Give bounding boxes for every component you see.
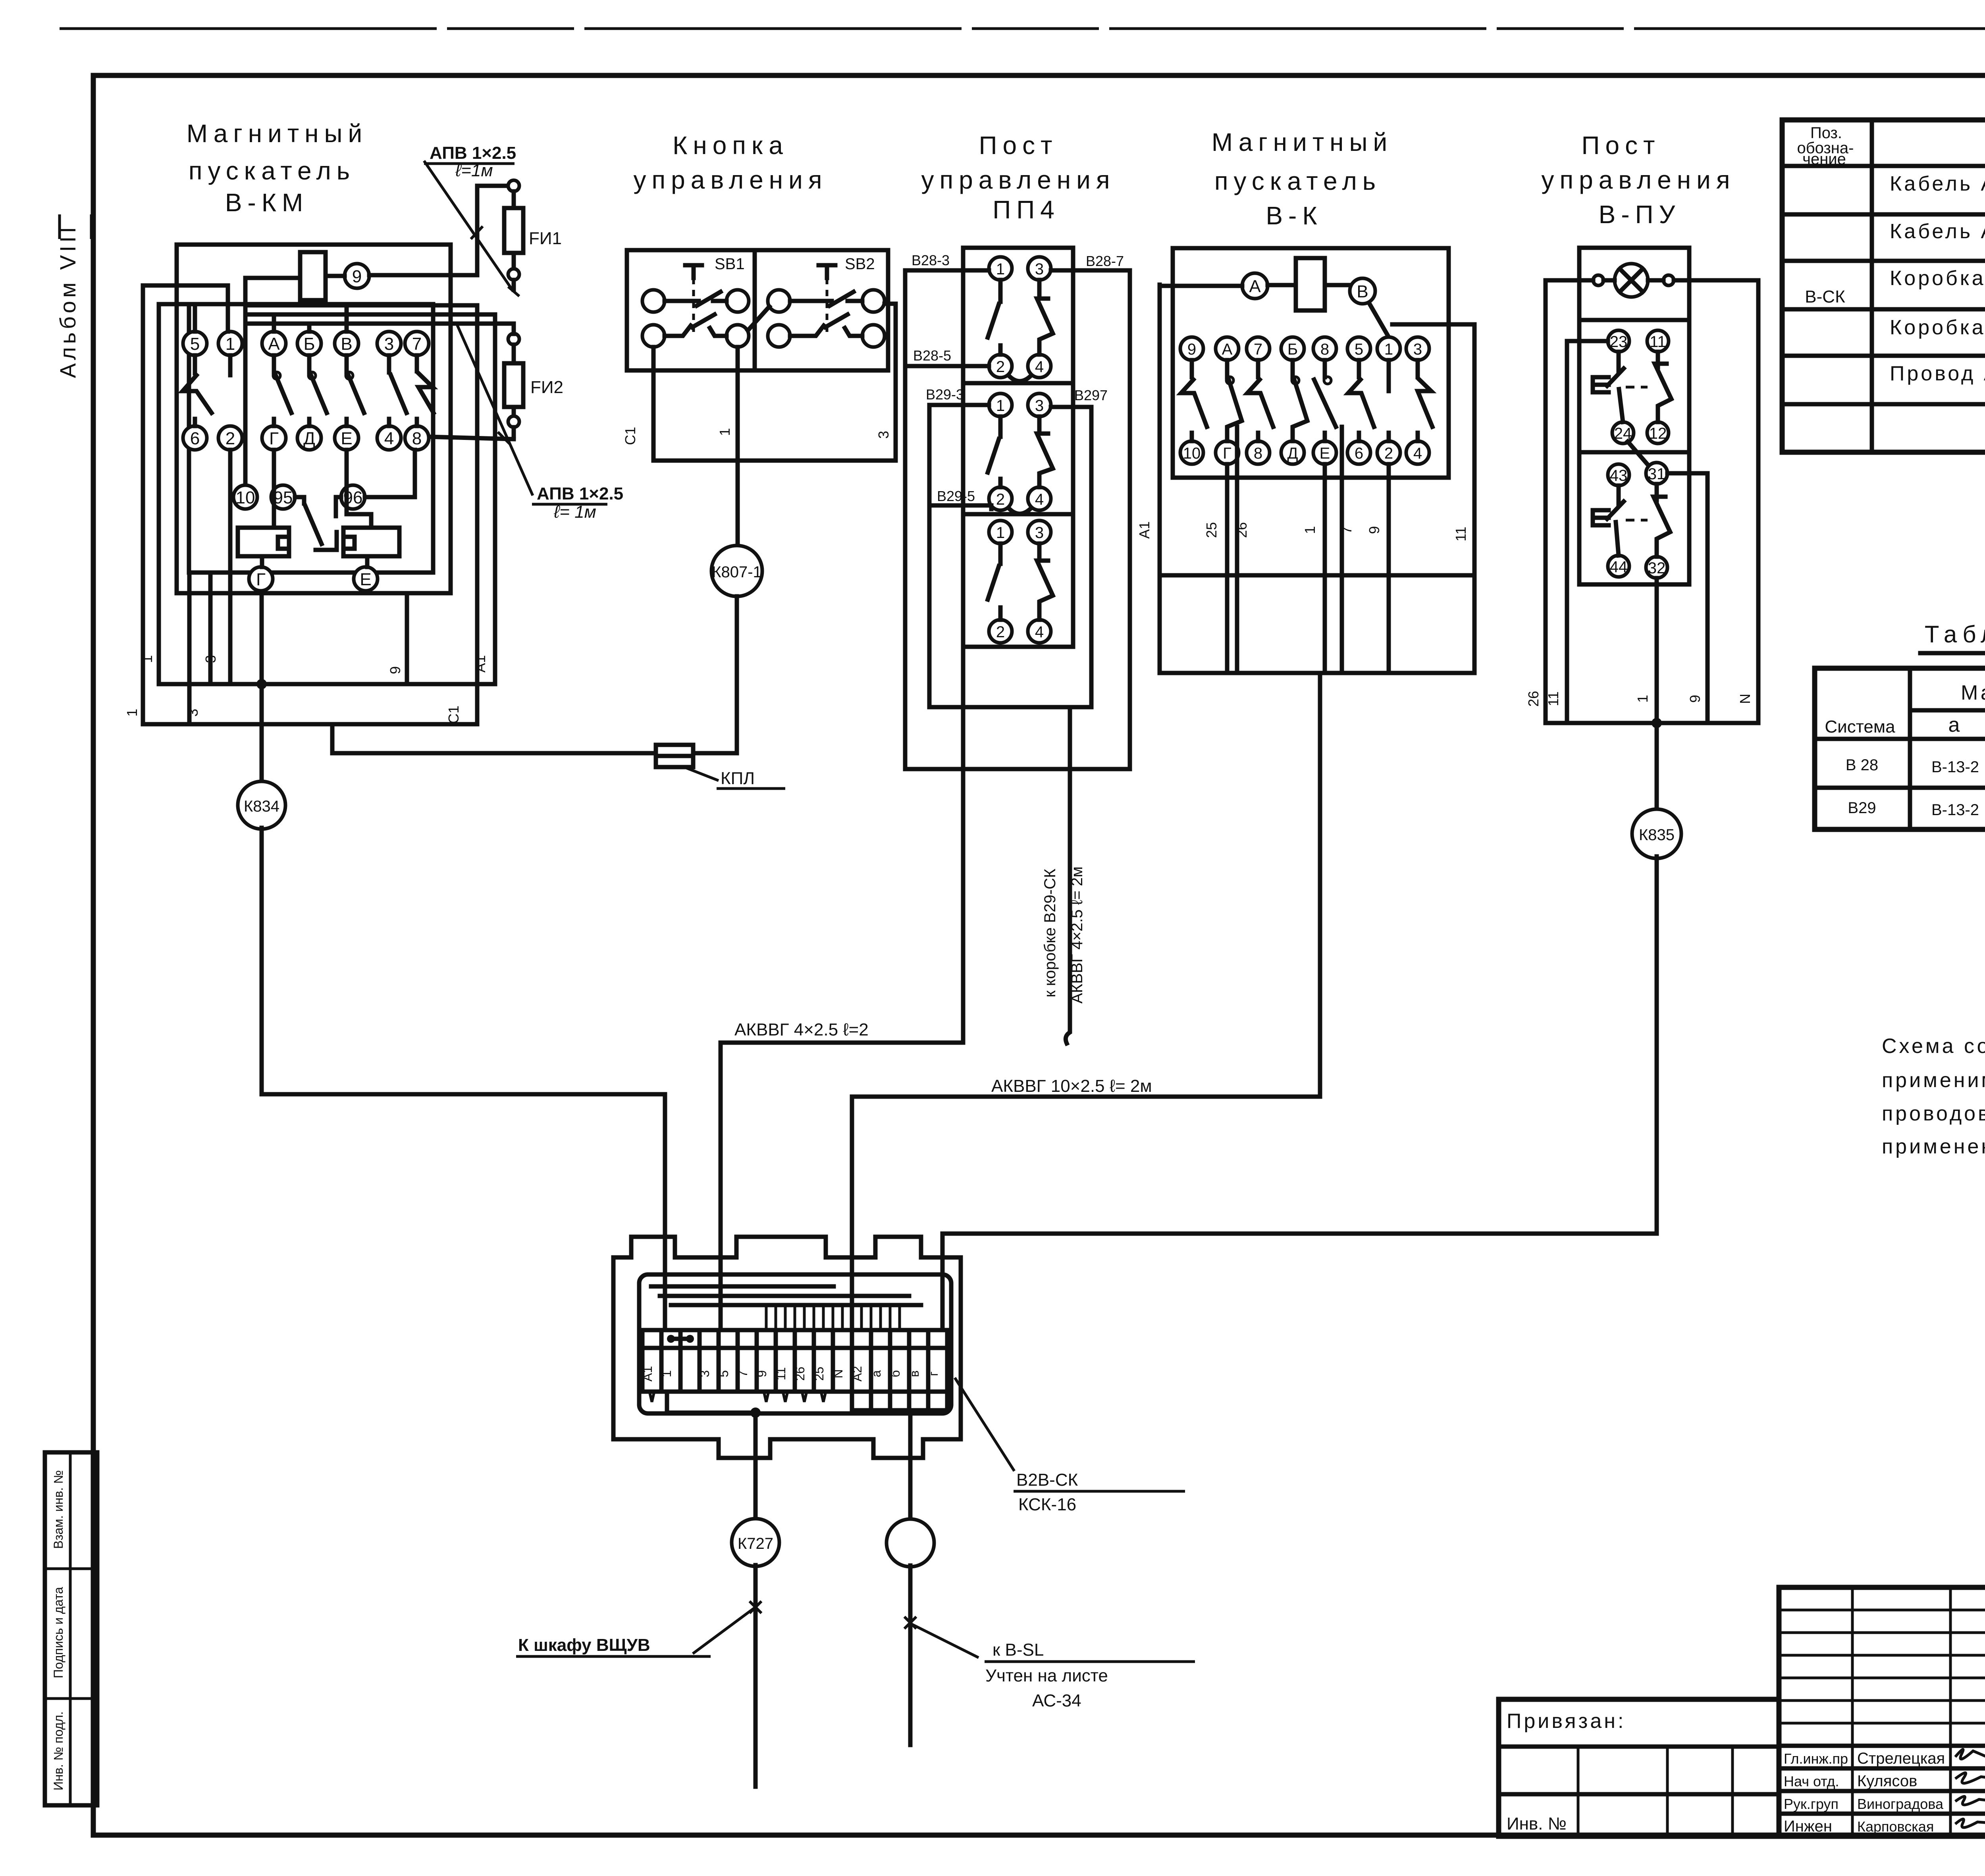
V-PU contact unit 1 symbol <box>1593 352 1671 422</box>
svg-text:АКВВГ 4×2.5 ℓ= 2м: АКВВГ 4×2.5 ℓ= 2м <box>1068 866 1086 1004</box>
svg-text:1: 1 <box>659 1370 674 1377</box>
V-PU contact unit 2 symbol <box>1593 484 1670 557</box>
svg-text:3: 3 <box>384 334 394 354</box>
svg-text:2: 2 <box>996 491 1005 508</box>
svg-text:6: 6 <box>190 429 200 448</box>
svg-text:26: 26 <box>793 1367 807 1381</box>
svg-text:5: 5 <box>1355 341 1363 358</box>
svg-text:к коробке В29-СК: к коробке В29-СК <box>1041 868 1059 997</box>
svg-text:А: А <box>1249 277 1261 296</box>
svg-text:А1: А1 <box>472 655 488 673</box>
title: Магнитный пускатель В-КМ <box>187 119 368 217</box>
connector inner body <box>639 1274 951 1413</box>
wire К834 down to connector <box>262 828 665 1330</box>
svg-text:3: 3 <box>1035 260 1044 278</box>
svg-text:ℓ=1м: ℓ=1м <box>455 161 493 180</box>
connector terminal strip <box>640 1330 947 1392</box>
svg-text:Магнитный: Магнитный <box>1212 128 1393 156</box>
svg-text:В: В <box>1357 282 1368 301</box>
svg-text:Г: Г <box>1223 445 1231 462</box>
PP4 contact unit 3 <box>988 521 1053 643</box>
svg-text:1: 1 <box>1634 695 1651 703</box>
wire C1 to KPL junction box <box>332 724 734 753</box>
V-K bottom exit wires with labels <box>1136 427 1474 673</box>
svg-text:9: 9 <box>1366 526 1382 534</box>
cable marker К727 <box>732 1413 779 1566</box>
svg-text:Е: Е <box>341 429 352 448</box>
svg-text:К834: К834 <box>244 798 279 815</box>
svg-text:Карповская: Карповская <box>1857 1818 1934 1835</box>
PP4 bottom bus B29 loop <box>929 705 1091 710</box>
wire B29-7 right drop <box>1051 407 1091 707</box>
fuse FU1 lower terminals <box>246 269 519 345</box>
svg-text:1: 1 <box>124 709 140 717</box>
cross wire SB1 to SB2 <box>748 307 769 330</box>
cable label APV 1x2.5 l=1m (top) <box>424 143 516 289</box>
thermal relay heater boxes <box>238 528 399 556</box>
svg-text:пускатель: пускатель <box>1214 167 1381 195</box>
svg-text:Г: Г <box>269 429 279 448</box>
cable marker К807-1 <box>711 546 762 596</box>
svg-text:Инв. №: Инв. № <box>1507 1814 1567 1834</box>
svg-text:9: 9 <box>1687 695 1703 703</box>
svg-text:пускатель: пускатель <box>189 156 355 185</box>
svg-text:Д: Д <box>303 429 315 448</box>
svg-text:С1: С1 <box>622 427 638 445</box>
svg-text:А: А <box>268 334 280 354</box>
svg-text:Виноградова: Виноградова <box>1857 1796 1944 1812</box>
svg-text:в: в <box>907 1371 921 1377</box>
svg-text:Пост: Пост <box>1582 131 1661 160</box>
V-K contact terminals top row <box>1180 337 1429 360</box>
connector collection wire to lower exits <box>667 1392 761 1418</box>
V-PU contact unit 1 terminals <box>1608 330 1669 443</box>
title block signature grid <box>1779 1587 1985 1836</box>
svg-text:Гл.инж.пр: Гл.инж.пр <box>1784 1751 1848 1767</box>
svg-text:10: 10 <box>1183 445 1201 462</box>
svg-text:В-КМ: В-КМ <box>225 188 309 217</box>
PP4 bottom bus B28 loop <box>905 767 1130 771</box>
svg-text:7: 7 <box>1254 341 1262 358</box>
wire labels B28-3 B28-5 B28-7 <box>912 252 1124 364</box>
svg-text:чение: чение <box>1802 150 1846 168</box>
svg-text:г: г <box>926 1371 940 1376</box>
svg-text:4: 4 <box>1035 623 1044 641</box>
svg-text:Пост: Пост <box>979 131 1058 160</box>
svg-text:управления: управления <box>1541 166 1735 194</box>
svg-text:В29: В29 <box>1848 799 1876 817</box>
wire coil left down to terminal 10 <box>245 278 300 485</box>
cable marker to B-SL (unlabeled circle) <box>887 1410 934 1567</box>
PP4 contact unit 2 <box>988 393 1053 514</box>
svg-text:К807-1: К807-1 <box>712 563 762 581</box>
album label: Альбом VIII <box>55 214 91 378</box>
svg-text:В28-5: В28-5 <box>913 347 951 364</box>
button bottom loop wire C1 <box>622 304 896 461</box>
V-PU bottom labels <box>1525 691 1753 707</box>
wire SB to cable marker <box>736 347 740 544</box>
coil wiring <box>1160 285 1389 337</box>
svg-text:АПВ 1×2.5: АПВ 1×2.5 <box>537 484 623 503</box>
terminal pin tips <box>649 1392 826 1402</box>
left stamp column boxes <box>45 1452 97 1805</box>
svg-text:Таблица применения,: Таблица применения, <box>1925 621 1985 648</box>
svg-text:1: 1 <box>996 397 1005 415</box>
svg-text:Коробка разделительная: Коробка разделительная <box>1890 316 1985 339</box>
svg-text:9: 9 <box>352 267 362 286</box>
svg-text:23: 23 <box>1610 333 1628 351</box>
svg-text:44: 44 <box>1610 558 1628 576</box>
svg-text:4: 4 <box>1035 358 1044 376</box>
svg-text:9: 9 <box>387 666 403 674</box>
svg-text:10: 10 <box>236 488 255 507</box>
svg-text:7: 7 <box>1338 526 1355 534</box>
parts list table top right <box>1782 120 1985 452</box>
terminal В of coil <box>1350 278 1375 304</box>
svg-text:АС-34: АС-34 <box>1032 1691 1081 1710</box>
svg-text:АПВ 1×2.5: АПВ 1×2.5 <box>430 143 516 163</box>
svg-text:5: 5 <box>717 1370 731 1377</box>
svg-text:1: 1 <box>225 334 235 354</box>
svg-text:А2: А2 <box>850 1366 864 1381</box>
svg-text:применима для В29 с зам: применима для В29 с заменой маркировки <box>1882 1069 1985 1092</box>
svg-text:Альбом VIII: Альбом VIII <box>55 224 80 378</box>
svg-text:SB2: SB2 <box>845 255 875 273</box>
PP4 contact unit 1 <box>988 257 1053 381</box>
svg-text:Кабель АКВВГ 10×2.5: Кабель АКВВГ 10×2.5 <box>1890 220 1985 243</box>
wire К727 down to cabinet <box>750 1565 761 1787</box>
svg-text:Подпись и дата: Подпись и дата <box>51 1587 66 1678</box>
fuse FU1 <box>504 180 562 269</box>
svg-text:Кнопка: Кнопка <box>673 131 788 160</box>
button SB1 <box>642 265 749 347</box>
cable АКВВГ 4х2.5 horizontal run <box>721 648 963 1330</box>
contact terminals top row 5 1 А Б В 3 7 <box>183 332 429 355</box>
svg-text:FИ2: FИ2 <box>530 378 563 397</box>
svg-text:3: 3 <box>202 655 219 663</box>
junction box KPL <box>656 745 785 789</box>
svg-text:3: 3 <box>1035 397 1044 415</box>
svg-text:9: 9 <box>1187 341 1196 358</box>
coil of V-KM <box>300 252 326 300</box>
svg-text:7: 7 <box>412 334 422 354</box>
svg-text:Г: Г <box>256 570 266 589</box>
svg-text:3: 3 <box>185 709 201 717</box>
svg-text:43: 43 <box>1610 467 1628 484</box>
svg-text:Б: Б <box>1287 341 1298 358</box>
svg-text:25: 25 <box>1203 522 1220 538</box>
svg-text:Стрелецкая: Стрелецкая <box>1857 1750 1945 1767</box>
svg-text:В28-7: В28-7 <box>1086 253 1124 269</box>
svg-text:12: 12 <box>1649 425 1667 442</box>
svg-text:24: 24 <box>1614 425 1632 442</box>
svg-text:32: 32 <box>1648 559 1666 577</box>
svg-text:N: N <box>831 1369 845 1378</box>
svg-text:В-ПУ: В-ПУ <box>1599 200 1681 229</box>
svg-text:к В-SL: к В-SL <box>992 1640 1044 1660</box>
svg-text:В-К: В-К <box>1266 201 1322 230</box>
application table (Таблица применения) <box>1815 621 1985 829</box>
cable label АПВ 1х2.5 l=1м lower <box>457 324 623 522</box>
title: Магнитный пускатель В-К <box>1212 128 1393 230</box>
contact terminals bottom row 6 2 Г Д Е 4 8 <box>183 426 429 450</box>
cable marker К834 <box>238 689 285 829</box>
svg-text:КСК-16: КСК-16 <box>1018 1495 1076 1514</box>
svg-text:К шкафу ВЩУВ: К шкафу ВЩУВ <box>518 1635 650 1655</box>
privyazan box <box>1499 1699 1779 1836</box>
svg-text:проводов и кабелей согла: проводов и кабелей согласно таблице <box>1882 1102 1985 1125</box>
bottom bus A with labels 9 А1 <box>139 314 495 689</box>
wire B28-7 right drop <box>1051 270 1130 769</box>
title: Пост управления В-ПУ <box>1541 131 1735 229</box>
label к В-SL Учтен на листе АС-34 <box>911 1624 1195 1710</box>
wire from 23 <box>1567 341 1608 723</box>
jumper link on terminal 1 <box>667 1335 694 1343</box>
svg-text:2: 2 <box>996 358 1005 376</box>
svg-text:С1: С1 <box>445 706 462 724</box>
svg-text:Система: Система <box>1825 717 1895 737</box>
wire К807-1 down to KPL line <box>734 596 737 753</box>
cable marker К835 <box>1632 809 1681 858</box>
svg-text:4: 4 <box>1413 445 1422 462</box>
phase feed wires to А Б В <box>246 305 495 332</box>
svg-text:8: 8 <box>1320 341 1329 358</box>
wire К835 down to connector <box>942 856 1657 1330</box>
control post PP4 box <box>963 248 1073 647</box>
svg-text:1: 1 <box>996 524 1005 542</box>
bottom bus B (C1) <box>124 305 477 724</box>
svg-text:11: 11 <box>1453 526 1469 541</box>
svg-text:Учтен на листе: Учтен на листе <box>985 1666 1108 1685</box>
cable АКВВГ 10х2.5 run <box>852 673 1320 1330</box>
svg-text:9: 9 <box>755 1370 769 1377</box>
label К шкафу ВЩУВ <box>516 1608 754 1656</box>
svg-text:А1: А1 <box>640 1366 655 1381</box>
svg-text:К727: К727 <box>738 1535 773 1552</box>
svg-text:Рук.груп: Рук.груп <box>1784 1796 1839 1812</box>
connector internal bus wires <box>651 1286 921 1330</box>
svg-text:Коробка соединительная КСК: Коробка соединительная КСК-16 <box>1890 267 1985 290</box>
svg-text:1: 1 <box>996 260 1005 278</box>
auxiliary terminals 10 95 96 <box>233 485 365 509</box>
wire from 31 <box>1667 473 1707 723</box>
svg-text:2: 2 <box>1384 445 1393 462</box>
svg-text:А1: А1 <box>1136 521 1152 539</box>
V-K contact blades <box>1181 360 1432 441</box>
fuse FU2 <box>428 345 563 444</box>
svg-text:В 28: В 28 <box>1846 756 1878 774</box>
svg-text:Нач отд.: Нач отд. <box>1784 1773 1839 1789</box>
svg-text:6: 6 <box>1355 445 1363 462</box>
svg-text:8: 8 <box>1254 445 1262 462</box>
svg-text:Б: Б <box>304 334 315 354</box>
svg-text:Д: Д <box>1287 445 1298 462</box>
wire from 32 to К835 <box>1652 578 1662 811</box>
svg-text:управления: управления <box>921 166 1115 194</box>
svg-text:В-13-2: В-13-2 <box>1931 801 1979 819</box>
svg-text:В29-5: В29-5 <box>937 488 975 504</box>
V-K contact terminals bottom row <box>1180 441 1429 464</box>
svg-text:Инжен: Инжен <box>1784 1818 1832 1835</box>
svg-text:5: 5 <box>190 334 200 354</box>
terminal А of coil <box>1242 273 1268 299</box>
V-K bottom bus <box>1160 671 1474 675</box>
coil of V-K <box>1296 258 1325 310</box>
button SB2 <box>768 265 885 347</box>
terminals Г and Е below heaters <box>249 556 378 591</box>
svg-text:АКВВГ 4×2.5 ℓ=2: АКВВГ 4×2.5 ℓ=2 <box>734 1020 869 1039</box>
svg-text:а: а <box>1948 713 1962 737</box>
wire B29-5 <box>929 505 991 509</box>
svg-text:Маркировка проводов: Маркировка проводов <box>1961 681 1985 704</box>
svg-text:Провод АПВ 1×2.5: Провод АПВ 1×2.5 <box>1890 362 1985 385</box>
svg-text:Привязан:: Привязан: <box>1507 1710 1626 1733</box>
svg-text:2: 2 <box>996 623 1005 641</box>
svg-text:95: 95 <box>274 488 293 507</box>
title block outline <box>1779 1587 1985 1836</box>
svg-text:В297: В297 <box>1074 387 1108 403</box>
stub cable to box B29-SK <box>1041 707 1086 1043</box>
svg-text:11: 11 <box>1545 691 1561 706</box>
svg-text:управления: управления <box>633 166 827 194</box>
svg-text:К835: К835 <box>1639 826 1675 844</box>
note text: Схема составлена ... <box>1882 1035 1985 1158</box>
V-PU outer loop wires <box>1546 280 1758 723</box>
svg-text:7: 7 <box>736 1370 750 1377</box>
svg-text:В28-3: В28-3 <box>912 252 950 268</box>
svg-text:КПЛ: КПЛ <box>721 769 755 788</box>
svg-text:В29-3: В29-3 <box>926 386 964 403</box>
svg-text:11: 11 <box>774 1367 788 1380</box>
starter V-K outer wire loop <box>1160 285 1474 575</box>
connector box KSK-16 outer castellated outline <box>613 1237 961 1458</box>
svg-text:Схема составлена для си: Схема составлена для системы В28 и <box>1882 1035 1985 1058</box>
svg-text:1: 1 <box>1302 526 1318 534</box>
svg-text:Взам. инв. №: Взам. инв. № <box>51 1470 66 1549</box>
starter V-K box <box>1173 248 1449 478</box>
V-PU contact unit 2 terminals <box>1608 463 1667 578</box>
svg-text:а: а <box>869 1370 883 1377</box>
svg-text:3: 3 <box>698 1370 712 1377</box>
svg-text:26: 26 <box>1525 691 1542 707</box>
title: Пост управления ПП4 <box>921 131 1115 224</box>
starter V-KM inner box <box>189 304 433 573</box>
wire B28-5 <box>905 364 989 368</box>
left outer loop wires <box>143 285 228 724</box>
svg-text:Инв. № подл.: Инв. № подл. <box>51 1711 66 1790</box>
svg-text:АКВВГ 10×2.5 ℓ= 2м: АКВВГ 10×2.5 ℓ= 2м <box>991 1076 1152 1096</box>
wire B28-3 left drop <box>905 270 989 769</box>
svg-text:2: 2 <box>225 429 235 448</box>
wire labels B29-3 B29-7 B29-5 <box>926 386 1108 504</box>
svg-text:11: 11 <box>1650 333 1666 351</box>
svg-text:31: 31 <box>1648 465 1666 483</box>
svg-text:4: 4 <box>384 429 394 448</box>
signal lamp <box>1579 264 1689 297</box>
svg-text:3: 3 <box>1035 524 1044 542</box>
jumper 24 to 31 <box>1628 442 1648 465</box>
svg-text:3: 3 <box>1413 341 1422 358</box>
sheet top perforation dashed line <box>60 27 1985 30</box>
svg-text:1: 1 <box>717 428 733 436</box>
wire coil to node 9 and to fuse branch <box>326 186 508 276</box>
svg-text:ПП4: ПП4 <box>992 195 1060 224</box>
wire B29-3 left drop <box>929 405 989 707</box>
svg-text:Кулясов: Кулясов <box>1857 1772 1917 1790</box>
svg-text:1: 1 <box>1384 341 1393 358</box>
wire to B-SL <box>904 1566 916 1745</box>
svg-text:Е: Е <box>1320 445 1330 462</box>
svg-text:Е: Е <box>360 570 371 589</box>
svg-text:В-СК: В-СК <box>1805 287 1845 307</box>
svg-text:FИ1: FИ1 <box>529 229 562 248</box>
connector lower comb right half <box>852 1392 947 1410</box>
thermal relay contact between 95 and 96 <box>295 497 341 550</box>
svg-text:В: В <box>341 334 352 354</box>
control post V-PU box <box>1579 248 1689 584</box>
svg-text:SB1: SB1 <box>715 255 745 273</box>
control button box SB1+SB2 <box>627 250 888 370</box>
svg-text:25: 25 <box>812 1367 826 1381</box>
svg-text:В-13-2: В-13-2 <box>1931 758 1979 776</box>
svg-text:26: 26 <box>1233 522 1250 538</box>
svg-text:Кабель АКВВГ 4×2.5: Кабель АКВВГ 4×2.5 <box>1890 172 1985 195</box>
wires Г and Е contacts to heaters <box>274 450 415 528</box>
svg-text:1: 1 <box>139 655 155 663</box>
svg-text:8: 8 <box>412 429 422 448</box>
svg-text:3: 3 <box>875 431 892 439</box>
node 9 circle <box>345 264 369 288</box>
title: Кнопка управления <box>633 131 827 194</box>
main contacts blades V-KM <box>183 355 434 426</box>
svg-text:4: 4 <box>1035 491 1044 508</box>
svg-text:б: б <box>888 1370 902 1377</box>
svg-text:Магнитный: Магнитный <box>187 119 368 148</box>
starter V-KM outer box <box>177 245 451 593</box>
svg-text:А: А <box>1222 341 1233 358</box>
label В2В-СК КСК-16 <box>955 1378 1185 1514</box>
svg-text:N: N <box>1737 694 1753 704</box>
svg-text:В2В-СК: В2В-СК <box>1016 1470 1078 1490</box>
svg-text:применения.: применения. <box>1882 1135 1985 1158</box>
